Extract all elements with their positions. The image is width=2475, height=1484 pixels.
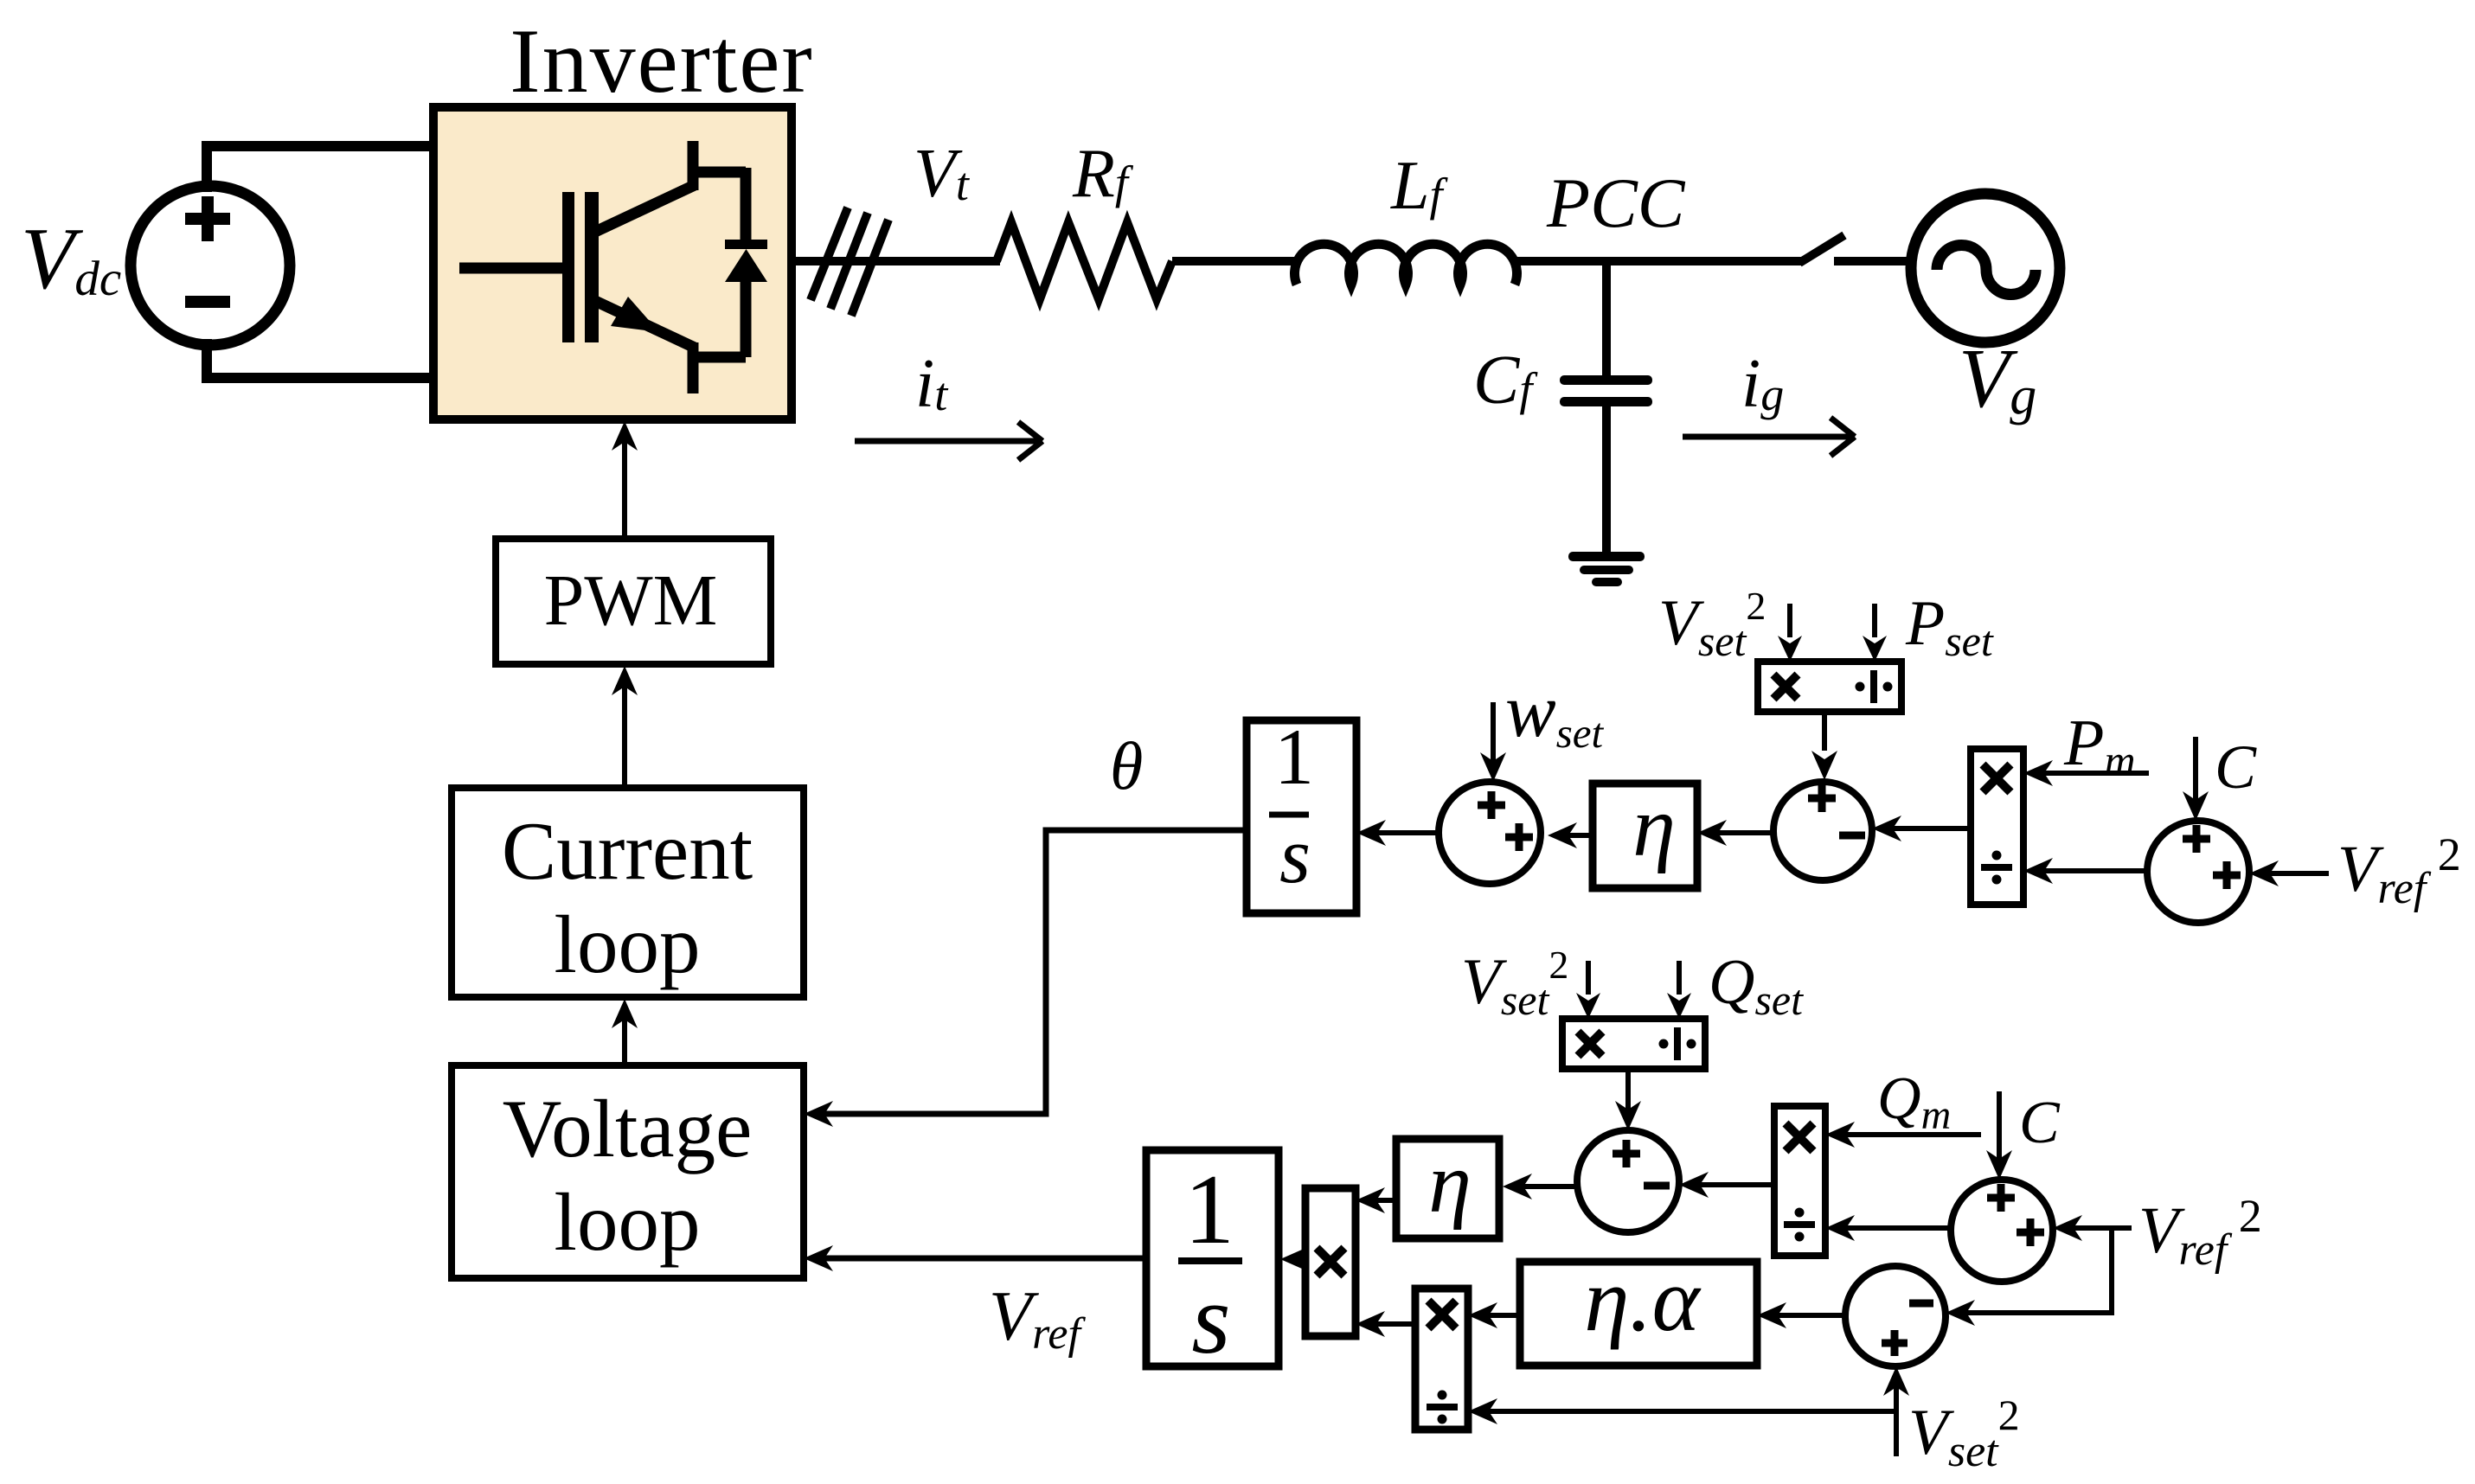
svg-text:Current: Current — [502, 805, 753, 897]
gain eta-alpha — [1520, 1262, 1757, 1366]
wire Vref2 branch down to sum4 — [1955, 1228, 2112, 1313]
arrow Pm into multdiv — [2032, 771, 2149, 776]
summing junction sum1 — [1439, 782, 1541, 884]
arrow C into sum3 — [2193, 737, 2198, 807]
capacitor Cf — [1602, 261, 1611, 378]
switch S1 — [1799, 235, 1844, 263]
inductor Lf — [1295, 244, 1517, 285]
arrow sum1 to 1/s — [1365, 830, 1439, 835]
transistor IGBT gate lead — [459, 263, 564, 274]
svg-text:Inverter: Inverter — [510, 10, 813, 112]
svg-text:η.α: η.α — [1584, 1249, 1701, 1350]
wire theta from 1/s to Voltage loop — [813, 830, 1247, 1114]
ground — [1568, 552, 1645, 561]
wire Vdc top to inverter — [207, 146, 436, 192]
arrow Voltage loop to Current loop — [622, 1010, 627, 1065]
arrow Vset2 into mdbox2 — [1586, 961, 1591, 995]
summing junction sum4 — [1845, 1266, 1946, 1366]
arrow Qm into multdivq — [1835, 1132, 1981, 1137]
arrow Current loop to PWM — [622, 677, 627, 788]
integrator 1/s (Q chain) — [1146, 1150, 1279, 1366]
svg-text:θ: θ — [1110, 728, 1143, 803]
arrow multdiv to multbox — [1365, 1321, 1415, 1327]
svg-text:η: η — [1632, 778, 1676, 874]
transistor IGBT collector — [595, 185, 695, 232]
transistor IGBT gate bar — [562, 192, 574, 342]
arrow eta to sum1 — [1557, 833, 1593, 838]
transistor IGBT body bar — [585, 192, 599, 342]
arrow sum5 to multdivq divide — [1835, 1225, 1951, 1231]
svg-text:η: η — [1428, 1135, 1472, 1231]
dc source Vdc — [131, 186, 290, 345]
multiply-divide box (Vset2 Qset) — [1562, 1019, 1705, 1069]
block PWM — [496, 539, 771, 664]
wire inverter output Vt — [792, 257, 1000, 265]
arrow multdiv to sum2 — [1881, 826, 1971, 831]
multiply-divide box (Vset2 Pset) — [1758, 662, 1901, 712]
arrow PWM to inverter — [622, 432, 627, 539]
arrow Qset into mdbox2 — [1677, 961, 1682, 995]
arrow eta-alpha to multdiv times — [1478, 1313, 1520, 1318]
block Current loop — [452, 788, 804, 997]
arrow mdbox1 to sum2 — [1822, 712, 1827, 751]
arrow ig — [1683, 434, 1855, 440]
svg-text:1: 1 — [1274, 713, 1314, 801]
wire Vref2 (Q) horizontal — [2063, 1225, 2132, 1231]
wire Vset2 to multdiv divide — [1478, 1409, 1896, 1414]
svg-text:loop: loop — [555, 899, 701, 990]
summing junction sum2 — [1773, 782, 1872, 880]
svg-text:s: s — [1191, 1264, 1230, 1375]
arrow multbox to 1/s — [1290, 1257, 1305, 1262]
wire Lf to switch — [1511, 257, 1801, 265]
diode D1 — [693, 167, 746, 178]
svg-text:1: 1 — [1184, 1155, 1234, 1265]
summing junction sum5 — [1951, 1180, 2053, 1282]
arrow sum3 to multdiv divide — [2032, 868, 2147, 873]
ac source Vg — [1911, 194, 2060, 342]
arrow Vset2 into mdbox1 — [1787, 604, 1792, 637]
arrow mdbox2 to sumq — [1625, 1069, 1631, 1117]
svg-text:PCC: PCC — [1546, 163, 1686, 242]
arrow C into sum5 — [1997, 1091, 2002, 1166]
mult-div block (P chain) — [1971, 749, 2023, 905]
mult-div block (Q chain) — [1774, 1106, 1825, 1256]
arrow Pset into mdbox1 — [1872, 604, 1877, 637]
arrow Vref2 into sum3 — [2260, 871, 2329, 876]
gain eta (P chain) — [1593, 784, 1697, 888]
integrator 1/s (P chain) — [1247, 720, 1356, 913]
three-phase slashes — [811, 208, 848, 300]
summing junction sum3 — [2147, 821, 2249, 923]
multiplier box (Q chain) — [1305, 1188, 1356, 1336]
svg-text:s: s — [1279, 811, 1311, 899]
arrow sum2 to eta — [1709, 830, 1773, 835]
wire Vref from 1/s to Voltage loop — [822, 1256, 1146, 1262]
block Voltage loop — [452, 1065, 804, 1278]
arrow wset into sum1 — [1491, 702, 1496, 768]
svg-text:Voltage: Voltage — [503, 1083, 752, 1174]
arrow it — [855, 438, 1042, 445]
arrow eta to multbox — [1365, 1198, 1396, 1203]
gain eta (Q chain) — [1396, 1139, 1499, 1238]
svg-text:loop: loop — [555, 1176, 701, 1268]
summing junction sumq — [1577, 1130, 1679, 1232]
arrow sumq to eta — [1511, 1184, 1576, 1189]
svg-text:C: C — [2019, 1090, 2061, 1156]
resistor Rf — [997, 222, 1172, 299]
inverter box — [433, 107, 792, 419]
arrow Vset2 up into sum4 — [1894, 1380, 1899, 1456]
wire Rf to Lf — [1172, 257, 1300, 265]
svg-text:C: C — [2215, 732, 2257, 802]
wire Vdc bottom to inverter — [207, 339, 436, 378]
transistor IGBT emitter — [595, 301, 695, 348]
mult-div block (V chain lower) — [1415, 1289, 1468, 1430]
svg-text:PWM: PWM — [544, 560, 718, 641]
arrow sum4 to eta-alpha — [1766, 1313, 1845, 1318]
arrow multdivq to sumq — [1688, 1182, 1774, 1187]
